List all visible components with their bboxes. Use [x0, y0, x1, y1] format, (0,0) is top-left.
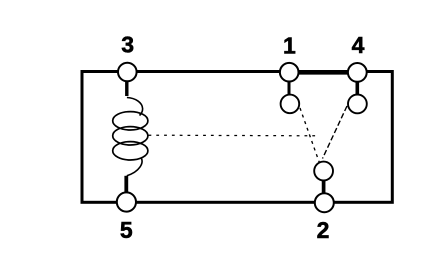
- wire: thicker segment between pin 1 and pin 4: [297, 71, 350, 75]
- terminal 4 circle: [348, 63, 367, 82]
- terminal 1 circle: [280, 63, 299, 82]
- dashed link: contact under pin 1 to armature: [300, 108, 320, 163]
- wire: coil bottom stub: [124, 176, 128, 194]
- terminal 3 circle: [118, 63, 137, 82]
- svg-text:2: 2: [317, 217, 330, 243]
- relay body outline: [82, 72, 392, 203]
- relay coil loop 2: [113, 127, 148, 145]
- contact circle under pin 4: [348, 95, 367, 114]
- svg-text:1: 1: [283, 33, 296, 59]
- svg-text:4: 4: [352, 32, 365, 58]
- relay coil loop 3: [113, 142, 148, 160]
- relay coil loop 1: [113, 112, 148, 130]
- svg-text:5: 5: [120, 217, 133, 243]
- contact circle under pin 1: [281, 95, 300, 114]
- svg-text:3: 3: [121, 32, 134, 58]
- wire: stub between armature and pin 2: [322, 181, 326, 195]
- relay coil exit curve: [127, 159, 142, 176]
- wire: stub below pin 4: [355, 81, 359, 97]
- terminal 2 circle: [315, 193, 334, 212]
- relay coil entry curve: [127, 98, 143, 116]
- dashed link: contact under pin 4 to armature: [323, 106, 348, 159]
- dashed actuation line from coil to armature: [149, 134, 321, 137]
- wire: coil top stub: [125, 81, 128, 97]
- terminal 5 circle: [117, 192, 136, 211]
- armature common contact circle: [314, 162, 333, 181]
- wire: stub below pin 1: [288, 81, 291, 97]
